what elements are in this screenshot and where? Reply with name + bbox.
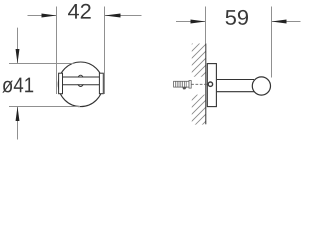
dim text ø41 — [2, 78, 33, 93]
arm top line — [217, 79, 254, 81]
anchor ribs — [175, 81, 186, 87]
dim ø41: top stem — [17, 28, 19, 64]
dim 59: left tail line — [176, 21, 206, 23]
wall hatching lower band — [186, 80, 212, 141]
mounting plate — [207, 64, 216, 107]
right end cap — [99, 73, 103, 94]
dim 59: left extension/wall line top — [205, 7, 207, 44]
crossbar top line — [63, 76, 100, 78]
dim text 59 — [226, 10, 248, 25]
dim 42: right arrowhead — [105, 14, 121, 18]
dim text 42 — [68, 4, 91, 19]
wall face line — [205, 44, 207, 125]
arm bottom line — [217, 91, 254, 93]
anchor collar — [189, 81, 191, 89]
left end cap — [59, 73, 63, 94]
crossbar white fill — [63, 77, 100, 84]
wall hatching upper band — [186, 24, 212, 99]
dim ø41: bottom arrowhead (up) — [16, 107, 20, 122]
dim 42: right extension line — [104, 7, 106, 95]
dim 59: right tail line — [272, 21, 301, 23]
anchor body — [174, 81, 189, 87]
dim 42: right tail line — [105, 15, 142, 17]
dim ø41: top extension line — [9, 63, 74, 65]
dim 59: left arrowhead — [191, 20, 206, 24]
dim ø41: top arrowhead (down) — [16, 49, 20, 64]
dim 42: left tail line — [28, 15, 57, 17]
dim 59: right extension line — [271, 7, 273, 78]
screw dashed line — [191, 83, 207, 85]
hook tip ellipse (head-on) — [77, 75, 84, 86]
dim 42: left arrowhead — [42, 14, 57, 18]
dim ø41: bottom extension line — [9, 106, 80, 108]
anchor fin — [182, 87, 187, 89]
screw head circle — [208, 82, 212, 86]
dim 59: right arrowhead — [272, 20, 287, 24]
dim ø41: bottom stem — [17, 107, 19, 140]
crossbar bottom line — [63, 84, 100, 86]
circle body ø41 — [58, 62, 103, 107]
ball tip — [252, 77, 270, 95]
dim 42: left extension line — [56, 7, 58, 95]
